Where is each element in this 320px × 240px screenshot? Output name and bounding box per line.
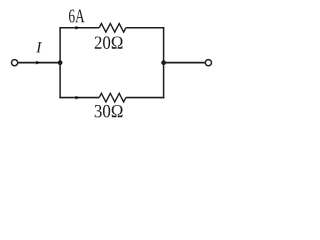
arrow: 6A branch current <box>75 26 80 30</box>
arrow: current I on input wire <box>36 61 41 65</box>
terminal left <box>12 60 18 66</box>
wire: node A up to top branch corner <box>59 27 61 63</box>
node B (right junction) <box>161 60 166 65</box>
node A (left junction) <box>58 60 63 65</box>
wire: top branch right segment <box>126 27 165 29</box>
arrow: bottom branch current <box>75 96 80 100</box>
label 6A (top branch current) <box>69 9 85 22</box>
wire: top-right corner down to node B <box>163 27 165 63</box>
wire: top branch left segment <box>59 27 99 29</box>
wire: bottom branch right segment <box>126 97 165 99</box>
wire: bottom branch left segment <box>59 97 99 99</box>
label 20 ohm (R1 value) <box>95 36 123 49</box>
label 30 ohm (R2 value) <box>95 105 123 118</box>
wire: node B to right terminal <box>164 62 205 64</box>
wire: left terminal to node A <box>18 62 60 64</box>
resistor R2 30ohm zigzag <box>99 93 126 102</box>
wire: node A down to bottom branch corner <box>59 63 61 99</box>
wire: bottom-right corner up to node B <box>163 63 165 99</box>
label I (current into node A) <box>36 42 42 52</box>
terminal right <box>205 60 211 66</box>
resistor R1 20ohm zigzag <box>99 24 126 33</box>
